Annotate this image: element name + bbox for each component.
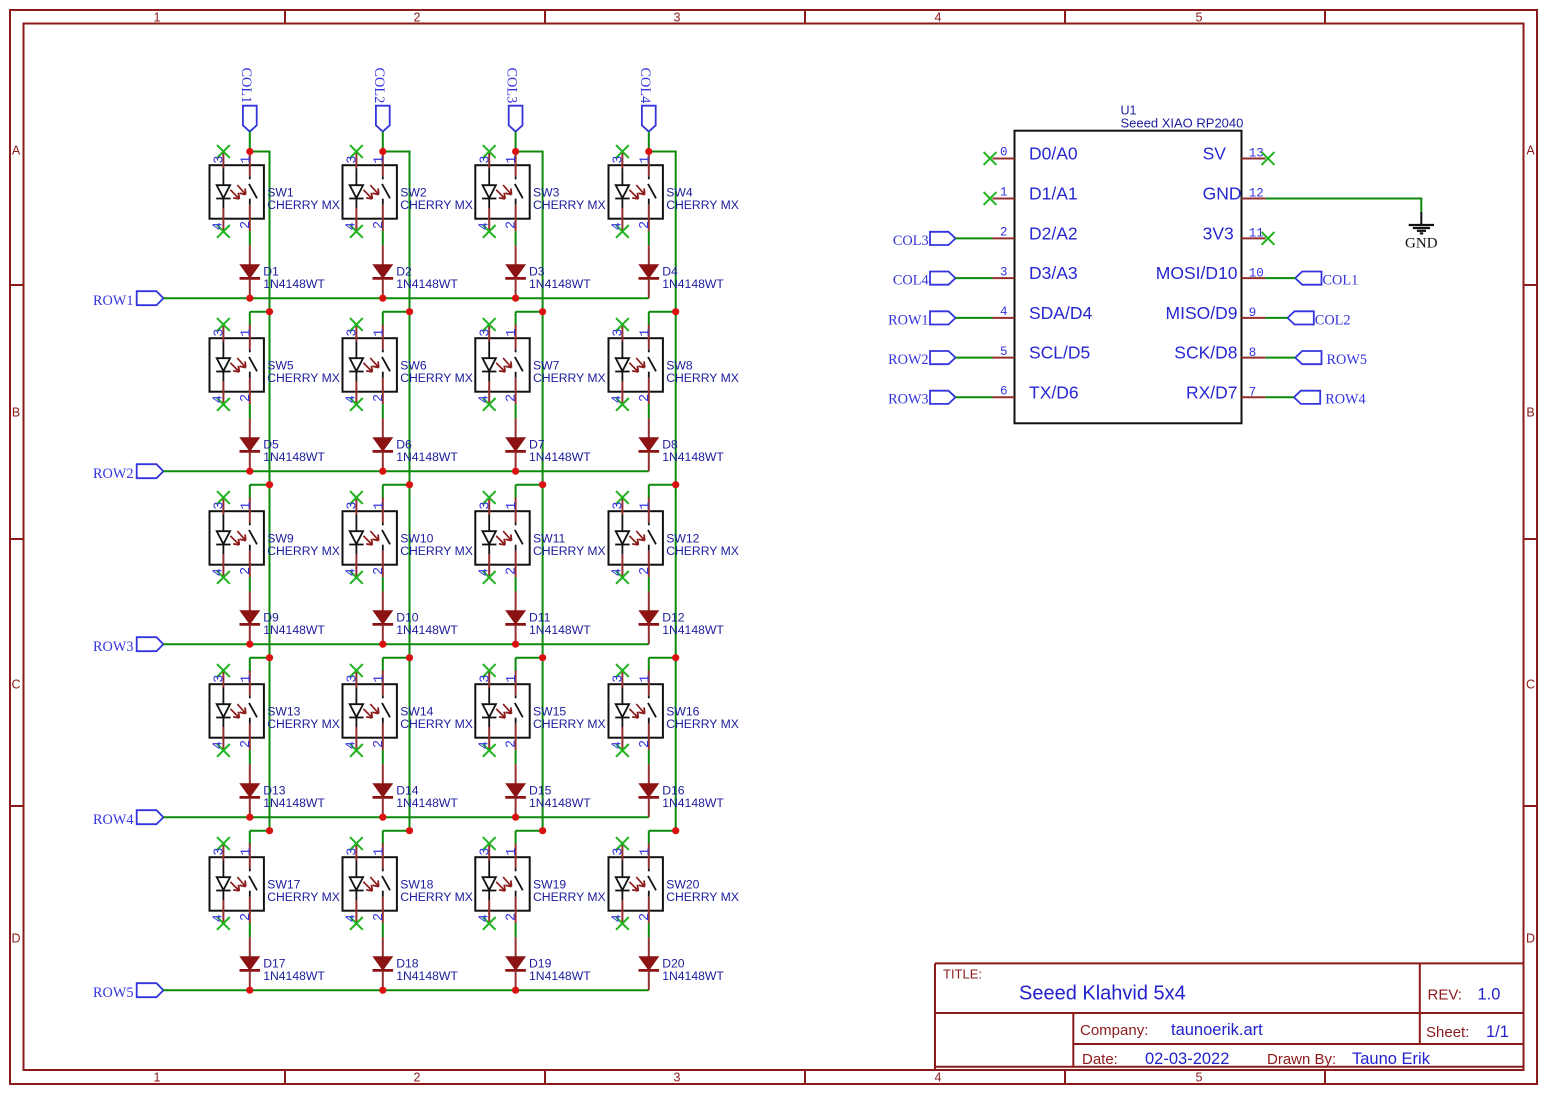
pin 11 3V3 U1 (1242, 237, 1266, 239)
svg-text:ROW2: ROW2 (93, 466, 134, 482)
svg-text:3: 3 (213, 329, 228, 337)
net label COL4 (637, 68, 656, 132)
svg-text:3: 3 (612, 848, 627, 856)
no-connect SW14 pin 4 (350, 744, 363, 757)
pin stub SW10 pin 4 (355, 554, 357, 577)
wire SW8 pin2 to D8 (648, 404, 650, 418)
svg-text:4: 4 (611, 222, 626, 230)
svg-text:2: 2 (505, 567, 520, 575)
svg-text:4: 4 (611, 568, 626, 576)
wire ROW4 (163, 816, 648, 818)
pin stub SW9 pin 2 (249, 551, 251, 577)
net label ROW3 at U1 pin 6 (888, 391, 955, 408)
no-connect SW3 pin 3 (483, 145, 496, 158)
switch SW13 CHERRY MX (210, 684, 264, 738)
svg-text:1N4148WT: 1N4148WT (529, 796, 591, 810)
wire COL3 vertical feed (542, 151, 544, 831)
wire COL2 drop to node (382, 132, 384, 152)
svg-text:2: 2 (505, 394, 520, 402)
node COL1 junction row4 (266, 654, 273, 661)
pin stub SW7 pin 4 (488, 381, 490, 404)
node COL3 junction row5 (539, 827, 546, 834)
net label ROW4 (93, 810, 163, 828)
switch SW7 CHERRY MX (475, 338, 529, 392)
svg-text:3: 3 (213, 502, 228, 510)
svg-text:2: 2 (414, 11, 421, 25)
svg-text:12: 12 (1249, 187, 1264, 201)
svg-text:3: 3 (674, 11, 681, 25)
svg-text:CHERRY MX: CHERRY MX (666, 198, 739, 212)
pin stub SW14 pin 1 (382, 671, 384, 696)
wire GND from U1 pin 12 (1266, 198, 1422, 200)
wire ROW1 to U1 pin 4 (956, 317, 993, 319)
pin 13 SV U1 (1242, 158, 1266, 160)
svg-text:1: 1 (505, 675, 520, 683)
svg-text:ROW3: ROW3 (93, 639, 134, 655)
pin stub SW11 pin 4 (488, 554, 490, 577)
svg-text:11: 11 (1249, 227, 1264, 241)
svg-text:D3/A3: D3/A3 (1029, 263, 1078, 283)
pin stub SW12 pin 3 (621, 498, 623, 515)
svg-text:A: A (12, 144, 21, 158)
no-connect SW9 pin 3 (217, 491, 230, 504)
svg-text:4: 4 (345, 568, 360, 576)
wire COL1 jog row5 (250, 830, 270, 832)
svg-text:1: 1 (505, 848, 520, 856)
diode D1 1N4148WT (240, 245, 261, 298)
svg-text:5: 5 (1196, 11, 1203, 25)
pin stub SW16 pin 2 (648, 724, 650, 750)
wire COL2 to U1 (1266, 317, 1288, 319)
ground GND (1405, 212, 1438, 252)
no-connect SW5 pin 4 (217, 398, 230, 411)
pin 12 GND U1 (1242, 198, 1266, 200)
svg-text:taunoerik.art: taunoerik.art (1171, 1021, 1263, 1039)
diode D4 1N4148WT (639, 245, 660, 298)
svg-text:REV:: REV: (1428, 987, 1462, 1004)
svg-text:2: 2 (638, 221, 653, 229)
wire COL1 to U1 (1266, 277, 1296, 279)
svg-text:D0/A0: D0/A0 (1029, 144, 1078, 164)
node ROW1 / D2 junction (379, 295, 386, 302)
svg-text:4: 4 (935, 1071, 942, 1085)
pin stub SW13 pin 1 (249, 671, 251, 696)
svg-text:1: 1 (505, 502, 520, 510)
wire COL2 jog row5 (383, 830, 410, 832)
svg-text:1N4148WT: 1N4148WT (263, 277, 325, 291)
svg-text:4: 4 (477, 395, 492, 403)
pin stub SW4 pin 4 (621, 208, 623, 231)
svg-text:1: 1 (154, 1071, 161, 1085)
pin stub SW8 pin 4 (621, 381, 623, 404)
diode D17 1N4148WT (240, 937, 261, 990)
wire COL2 jog row2 (383, 311, 410, 313)
switch SW15 CHERRY MX (475, 684, 529, 738)
node COL3 junction row4 (539, 654, 546, 661)
node ROW2 / D6 junction (379, 468, 386, 475)
pin stub SW2 pin 1 (382, 152, 384, 177)
pin stub SW15 pin 2 (515, 724, 517, 750)
svg-text:ROW5: ROW5 (93, 985, 134, 1001)
pin 0 D0/A0 U1 (993, 158, 1015, 160)
svg-text:Seeed XIAO RP2040: Seeed XIAO RP2040 (1121, 116, 1244, 131)
no-connect U1 pin 1 (984, 192, 997, 205)
wire COL2 jog row3 (383, 484, 410, 486)
svg-text:4: 4 (212, 395, 227, 403)
wire SW14 pin2 to D14 (382, 750, 384, 764)
svg-text:1N4148WT: 1N4148WT (396, 969, 458, 983)
svg-text:ROW4: ROW4 (93, 812, 134, 828)
pin stub SW16 pin 3 (621, 671, 623, 688)
pin stub SW20 pin 1 (648, 844, 650, 869)
switch SW16 CHERRY MX (609, 684, 663, 738)
no-connect SW8 pin 3 (616, 318, 629, 331)
pin stub SW5 pin 1 (249, 325, 251, 350)
no-connect SW15 pin 4 (483, 744, 496, 757)
svg-text:10: 10 (1249, 266, 1264, 280)
switch SW3 CHERRY MX (475, 165, 529, 219)
node COL3 junction row2 (539, 308, 546, 315)
svg-text:SV: SV (1203, 144, 1227, 164)
svg-text:CHERRY MX: CHERRY MX (533, 371, 606, 385)
pin stub SW2 pin 4 (355, 208, 357, 231)
svg-text:Drawn By:: Drawn By: (1267, 1051, 1336, 1068)
svg-text:CHERRY MX: CHERRY MX (400, 371, 473, 385)
switch SW9 CHERRY MX (210, 511, 264, 565)
svg-text:2: 2 (239, 221, 254, 229)
svg-text:COL3: COL3 (893, 233, 929, 249)
svg-text:4: 4 (611, 914, 626, 922)
svg-text:MISO/D9: MISO/D9 (1166, 303, 1238, 323)
svg-text:1: 1 (638, 502, 653, 510)
svg-text:CHERRY MX: CHERRY MX (267, 371, 340, 385)
no-connect SW15 pin 3 (483, 664, 496, 677)
svg-text:1N4148WT: 1N4148WT (662, 277, 724, 291)
svg-text:1: 1 (239, 502, 254, 510)
pin 2 D2/A2 U1 (993, 237, 1015, 239)
wire SW17 pin2 to D17 (249, 923, 251, 937)
svg-text:COL1: COL1 (1323, 273, 1359, 289)
svg-text:1: 1 (372, 156, 387, 164)
diode D18 1N4148WT (373, 937, 394, 990)
svg-text:0: 0 (1000, 146, 1008, 160)
svg-text:1: 1 (638, 675, 653, 683)
switch SW1 CHERRY MX (210, 165, 264, 219)
pin stub SW9 pin 4 (222, 554, 224, 577)
node COL2 junction row4 (406, 654, 413, 661)
node COL2 top junction (379, 148, 386, 155)
pin stub SW7 pin 3 (488, 325, 490, 342)
no-connect SW19 pin 3 (483, 837, 496, 850)
pin stub SW18 pin 3 (355, 844, 357, 861)
svg-text:1N4148WT: 1N4148WT (662, 450, 724, 464)
svg-text:1: 1 (1000, 186, 1008, 200)
pin 4 SDA/D4 U1 (993, 317, 1015, 319)
wire COL4 to U1 pin 3 (956, 277, 993, 279)
svg-text:CHERRY MX: CHERRY MX (666, 890, 739, 904)
svg-text:3: 3 (346, 156, 361, 164)
switch SW12 CHERRY MX (609, 511, 663, 565)
node COL3 junction row3 (539, 481, 546, 488)
diode D15 1N4148WT (505, 764, 526, 817)
svg-text:1: 1 (638, 156, 653, 164)
pin stub SW8 pin 2 (648, 378, 650, 404)
wire SW12 pin2 to D12 (648, 577, 650, 591)
no-connect SW17 pin 4 (217, 917, 230, 930)
pin stub SW8 pin 1 (648, 325, 650, 350)
svg-text:Seeed Klahvid 5x4: Seeed Klahvid 5x4 (1019, 983, 1186, 1005)
no-connect SW4 pin 4 (616, 225, 629, 238)
svg-text:02-03-2022: 02-03-2022 (1145, 1050, 1229, 1068)
wire COL4 jog row4 (649, 657, 676, 659)
diode D7 1N4148WT (505, 418, 526, 471)
pin stub SW3 pin 1 (515, 152, 517, 177)
pin stub SW15 pin 1 (515, 671, 517, 696)
no-connect U1 pin 0 (984, 152, 997, 165)
pin stub SW17 pin 4 (222, 900, 224, 923)
svg-text:1: 1 (372, 675, 387, 683)
wire COL4 top jog (649, 151, 676, 153)
net label COL2 (371, 68, 390, 132)
svg-text:2: 2 (239, 394, 254, 402)
pin stub SW17 pin 2 (249, 897, 251, 923)
svg-text:1: 1 (239, 675, 254, 683)
svg-text:GND: GND (1405, 236, 1438, 252)
net label ROW5 at U1 (1295, 351, 1367, 368)
no-connect SW13 pin 3 (217, 664, 230, 677)
svg-text:4: 4 (212, 914, 227, 922)
svg-text:7: 7 (1249, 386, 1257, 400)
svg-text:1N4148WT: 1N4148WT (263, 623, 325, 637)
svg-text:1N4148WT: 1N4148WT (529, 623, 591, 637)
no-connect SW2 pin 3 (350, 145, 363, 158)
wire COL1 jog row3 (250, 484, 270, 486)
svg-text:C: C (1526, 678, 1535, 692)
node ROW5 / D18 junction (379, 987, 386, 994)
wire COL4 vertical feed (675, 151, 677, 831)
pin stub SW13 pin 2 (249, 724, 251, 750)
node ROW3 / D11 junction (512, 641, 519, 648)
svg-text:CHERRY MX: CHERRY MX (533, 890, 606, 904)
diode D20 1N4148WT (639, 937, 660, 990)
svg-text:4: 4 (935, 11, 942, 25)
svg-text:3: 3 (478, 675, 493, 683)
wire COL4 drop to node (648, 132, 650, 152)
no-connect SW20 pin 3 (616, 837, 629, 850)
diode D14 1N4148WT (373, 764, 394, 817)
node ROW5 / D19 junction (512, 987, 519, 994)
pin stub SW10 pin 3 (355, 498, 357, 515)
no-connect SW1 pin 4 (217, 225, 230, 238)
diode D2 1N4148WT (373, 245, 394, 298)
no-connect SW2 pin 4 (350, 225, 363, 238)
svg-text:2: 2 (638, 567, 653, 575)
wire COL1 vertical feed (269, 151, 271, 831)
no-connect SW11 pin 4 (483, 571, 496, 584)
svg-text:1N4148WT: 1N4148WT (263, 450, 325, 464)
pin stub SW19 pin 4 (488, 900, 490, 923)
switch SW11 CHERRY MX (475, 511, 529, 565)
title block (935, 963, 1524, 1070)
pin 6 TX/D6 U1 (993, 396, 1015, 398)
svg-text:3: 3 (213, 848, 228, 856)
wire ROW2 to U1 pin 5 (956, 357, 993, 359)
svg-text:CHERRY MX: CHERRY MX (400, 544, 473, 558)
svg-text:8: 8 (1249, 346, 1257, 360)
pin stub SW18 pin 4 (355, 900, 357, 923)
no-connect SW20 pin 4 (616, 917, 629, 930)
pin stub SW1 pin 2 (249, 205, 251, 231)
pin stub SW4 pin 3 (621, 152, 623, 169)
svg-text:TX/D6: TX/D6 (1029, 382, 1079, 402)
wire COL1 top jog (250, 151, 270, 153)
svg-text:ROW2: ROW2 (888, 352, 929, 368)
svg-text:2: 2 (1000, 226, 1008, 240)
pin stub SW19 pin 2 (515, 897, 517, 923)
svg-text:4: 4 (212, 222, 227, 230)
svg-text:ROW3: ROW3 (888, 392, 929, 408)
pin stub SW15 pin 4 (488, 727, 490, 750)
svg-text:2: 2 (372, 221, 387, 229)
svg-text:3: 3 (612, 156, 627, 164)
node ROW4 / D13 junction (246, 814, 253, 821)
svg-text:4: 4 (345, 914, 360, 922)
diode D16 1N4148WT (639, 764, 660, 817)
svg-text:2: 2 (505, 740, 520, 748)
svg-text:1N4148WT: 1N4148WT (529, 450, 591, 464)
node ROW4 / D14 junction (379, 814, 386, 821)
svg-text:D1/A1: D1/A1 (1029, 184, 1078, 204)
pin stub SW19 pin 1 (515, 844, 517, 869)
no-connect SW8 pin 4 (616, 398, 629, 411)
svg-text:3: 3 (213, 675, 228, 683)
pin stub SW20 pin 2 (648, 897, 650, 923)
pin stub SW14 pin 4 (355, 727, 357, 750)
no-connect SW12 pin 4 (616, 571, 629, 584)
node COL1 junction row2 (266, 308, 273, 315)
svg-text:Company:: Company: (1080, 1022, 1148, 1039)
pin stub SW13 pin 3 (222, 671, 224, 688)
svg-text:2: 2 (638, 394, 653, 402)
switch SW10 CHERRY MX (343, 511, 397, 565)
svg-text:3: 3 (1000, 265, 1008, 279)
svg-text:CHERRY MX: CHERRY MX (666, 544, 739, 558)
svg-text:SCK/D8: SCK/D8 (1174, 343, 1237, 363)
pin stub SW5 pin 2 (249, 378, 251, 404)
net label COL1 at U1 (1295, 272, 1358, 289)
diode D6 1N4148WT (373, 418, 394, 471)
no-connect SW13 pin 4 (217, 744, 230, 757)
svg-text:2: 2 (372, 913, 387, 921)
svg-text:GND: GND (1203, 184, 1242, 204)
no-connect SW7 pin 3 (483, 318, 496, 331)
node COL4 junction row3 (672, 481, 679, 488)
diode D10 1N4148WT (373, 591, 394, 644)
svg-text:A: A (1526, 144, 1535, 158)
svg-text:3: 3 (612, 502, 627, 510)
wire COL3 jog row5 (516, 830, 543, 832)
node ROW3 / D10 junction (379, 641, 386, 648)
svg-text:1: 1 (638, 329, 653, 337)
svg-text:ROW1: ROW1 (93, 293, 134, 309)
svg-text:6: 6 (1000, 385, 1008, 399)
pin stub SW1 pin 4 (222, 208, 224, 231)
svg-text:COL2: COL2 (371, 68, 387, 104)
pin stub SW5 pin 3 (222, 325, 224, 342)
svg-text:CHERRY MX: CHERRY MX (533, 198, 606, 212)
no-connect SW11 pin 3 (483, 491, 496, 504)
svg-text:3: 3 (674, 1071, 681, 1085)
pin stub SW9 pin 1 (249, 498, 251, 523)
wire COL4 jog row2 (649, 311, 676, 313)
svg-text:3: 3 (478, 156, 493, 164)
node ROW1 / D3 junction (512, 295, 519, 302)
wire COL3 jog row3 (516, 484, 543, 486)
svg-text:1: 1 (154, 11, 161, 25)
pin stub SW13 pin 4 (222, 727, 224, 750)
node ROW5 / D17 junction (246, 987, 253, 994)
svg-text:3: 3 (346, 675, 361, 683)
node COL1 top junction (246, 148, 253, 155)
svg-text:1: 1 (239, 848, 254, 856)
wire ROW5 to U1 (1266, 357, 1296, 359)
pin stub SW7 pin 2 (515, 378, 517, 404)
svg-text:SCL/D5: SCL/D5 (1029, 343, 1090, 363)
node COL2 junction row3 (406, 481, 413, 488)
no-connect SW19 pin 4 (483, 917, 496, 930)
svg-text:CHERRY MX: CHERRY MX (666, 717, 739, 731)
svg-text:4: 4 (345, 222, 360, 230)
node COL1 junction row3 (266, 481, 273, 488)
pin stub SW10 pin 1 (382, 498, 384, 523)
pin stub SW16 pin 1 (648, 671, 650, 696)
wire COL2 vertical feed (409, 151, 411, 831)
wire COL3 top jog (516, 151, 543, 153)
pin stub SW12 pin 2 (648, 551, 650, 577)
pin stub SW6 pin 2 (382, 378, 384, 404)
no-connect SW6 pin 3 (350, 318, 363, 331)
svg-text:1N4148WT: 1N4148WT (396, 450, 458, 464)
svg-text:3: 3 (612, 329, 627, 337)
no-connect SW5 pin 3 (217, 318, 230, 331)
svg-text:1: 1 (239, 329, 254, 337)
pin stub SW3 pin 4 (488, 208, 490, 231)
pin stub SW3 pin 3 (488, 152, 490, 169)
diode D5 1N4148WT (240, 418, 261, 471)
wire SW15 pin2 to D15 (515, 750, 517, 764)
svg-text:RX/D7: RX/D7 (1186, 382, 1238, 402)
wire SW16 pin2 to D16 (648, 750, 650, 764)
wire SW3 pin2 to D3 (515, 231, 517, 245)
svg-text:1N4148WT: 1N4148WT (529, 277, 591, 291)
wire SW7 pin2 to D7 (515, 404, 517, 418)
svg-text:ROW1: ROW1 (888, 312, 929, 328)
wire SW13 pin2 to D13 (249, 750, 251, 764)
svg-text:3: 3 (612, 675, 627, 683)
svg-text:1: 1 (372, 502, 387, 510)
wire SW10 pin2 to D10 (382, 577, 384, 591)
svg-text:MOSI/D10: MOSI/D10 (1156, 263, 1238, 283)
wire ROW5 (163, 989, 648, 991)
svg-text:4: 4 (611, 741, 626, 749)
svg-text:3: 3 (346, 848, 361, 856)
svg-text:4: 4 (611, 395, 626, 403)
node ROW2 / D7 junction (512, 468, 519, 475)
no-connect SW12 pin 3 (616, 491, 629, 504)
pin stub SW6 pin 4 (355, 381, 357, 404)
svg-text:2: 2 (638, 740, 653, 748)
svg-text:3: 3 (478, 848, 493, 856)
